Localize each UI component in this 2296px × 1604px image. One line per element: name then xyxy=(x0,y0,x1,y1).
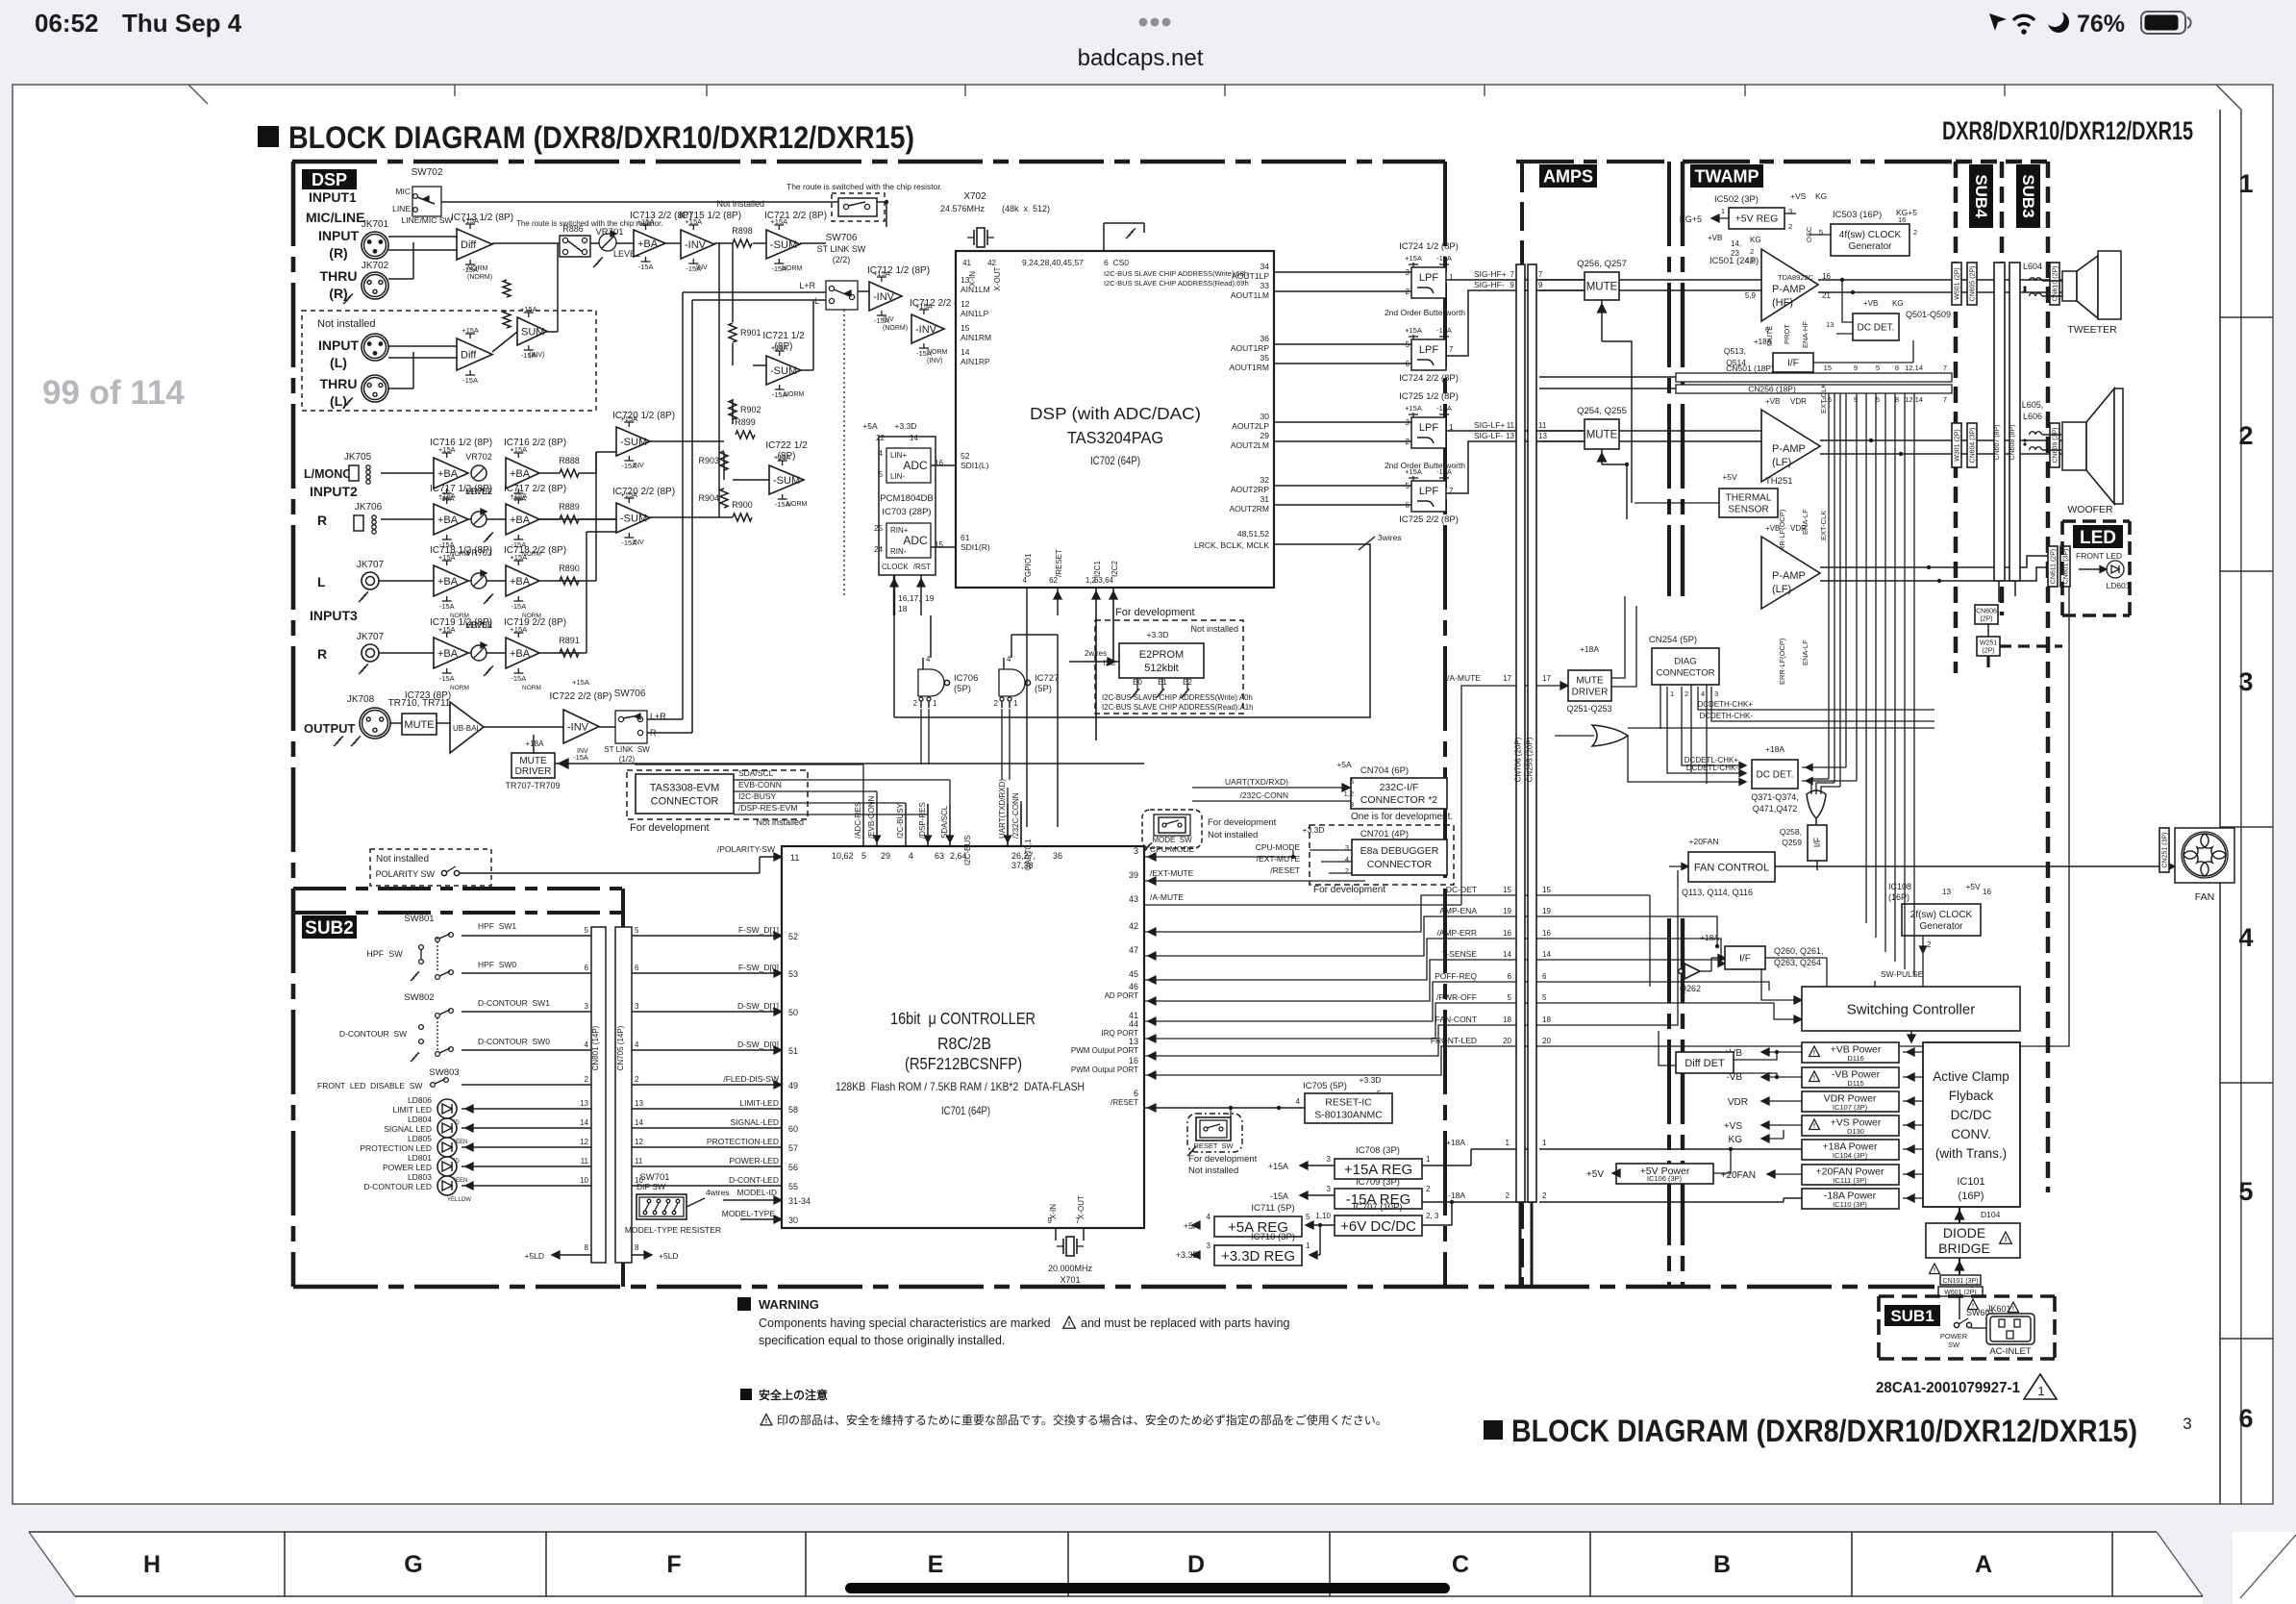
svg-text:The route is switched with the: The route is switched with the chip resi… xyxy=(786,182,942,191)
svg-text:5: 5 xyxy=(1350,777,1354,786)
svg-text:29: 29 xyxy=(1260,431,1270,440)
svg-text:35: 35 xyxy=(1260,353,1270,363)
svg-text:/A-MUTE: /A-MUTE xyxy=(1447,673,1481,683)
svg-text:Diff: Diff xyxy=(461,349,477,361)
svg-text:ENA-HF: ENA-HF xyxy=(1801,321,1809,348)
svg-text:-15A: -15A xyxy=(638,263,654,271)
svg-text:(with Trans.): (with Trans.) xyxy=(1935,1146,2007,1161)
svg-text:IC104 (3P): IC104 (3P) xyxy=(1833,1151,1868,1160)
svg-text:TWAMP: TWAMP xyxy=(1695,166,1759,186)
svg-text:KG: KG xyxy=(1750,236,1761,244)
svg-text:4: 4 xyxy=(585,1040,589,1049)
svg-text:SIG-LF-: SIG-LF- xyxy=(1474,431,1503,440)
svg-text:-18A: -18A xyxy=(1448,1190,1465,1200)
svg-text:Q263, Q264: Q263, Q264 xyxy=(1774,958,1821,967)
svg-text:JK707: JK707 xyxy=(357,560,385,570)
svg-text:+BA: +BA xyxy=(437,648,459,660)
svg-text:FRONT LED DISABLE SW: FRONT LED DISABLE SW xyxy=(317,1081,422,1090)
svg-text:IC709 (3P): IC709 (3P) xyxy=(1356,1177,1400,1188)
svg-text:7: 7 xyxy=(1943,395,1947,404)
svg-text:TDA8922C: TDA8922C xyxy=(1778,273,1814,282)
svg-text:D-CONTOUR LED: D-CONTOUR LED xyxy=(363,1182,432,1191)
svg-text:6: 6 xyxy=(1134,1089,1138,1098)
svg-text:I2C1: I2C1 xyxy=(1093,561,1102,577)
svg-text:58: 58 xyxy=(788,1105,798,1115)
svg-text:WOOFER: WOOFER xyxy=(2067,504,2113,515)
svg-text:11: 11 xyxy=(1507,421,1515,430)
svg-text:!: ! xyxy=(1068,1319,1071,1328)
svg-text:TWEETER: TWEETER xyxy=(2067,324,2117,336)
svg-text:Q513,: Q513, xyxy=(1724,346,1746,356)
svg-text:4f(sw) CLOCK: 4f(sw) CLOCK xyxy=(1839,230,1902,240)
svg-text:(8P): (8P) xyxy=(778,451,796,462)
svg-text:4: 4 xyxy=(1701,689,1705,698)
svg-text:AIN1LP: AIN1LP xyxy=(961,309,989,318)
svg-text:L: L xyxy=(814,296,819,306)
svg-text:8: 8 xyxy=(585,1243,589,1252)
svg-text:IC705 (5P): IC705 (5P) xyxy=(1303,1081,1347,1091)
svg-text:3: 3 xyxy=(1327,1155,1332,1164)
svg-text:(LF): (LF) xyxy=(1772,584,1791,595)
svg-text:1: 1 xyxy=(933,699,937,708)
svg-text:For development: For development xyxy=(630,822,710,834)
svg-text:/A-MUTE: /A-MUTE xyxy=(1150,892,1184,902)
svg-text:IC503 (16P): IC503 (16P) xyxy=(1833,210,1882,220)
svg-text:+VB: +VB xyxy=(1708,234,1722,242)
svg-text:(1/2): (1/2) xyxy=(619,755,636,764)
svg-text:badcaps.net: badcaps.net xyxy=(1078,45,1204,71)
svg-text:R890: R890 xyxy=(559,564,580,573)
svg-text:IC706: IC706 xyxy=(954,673,978,684)
svg-text:+VB: +VB xyxy=(1765,524,1780,533)
svg-text:C: C xyxy=(1452,1551,1469,1578)
svg-text:JK708: JK708 xyxy=(347,694,375,705)
svg-text:/232C-CONN: /232C-CONN xyxy=(1239,790,1288,800)
svg-text:JK601: JK601 xyxy=(1986,1304,2011,1314)
svg-text:NORM: NORM xyxy=(927,349,948,356)
svg-text:3: 3 xyxy=(1327,1185,1332,1193)
svg-text:24: 24 xyxy=(874,545,883,554)
svg-text:-SUM: -SUM xyxy=(770,239,797,251)
svg-text:5: 5 xyxy=(1508,993,1512,1002)
svg-text:BLOCK DIAGRAM (DXR8/DXR10/DXR1: BLOCK DIAGRAM (DXR8/DXR10/DXR12/DXR15) xyxy=(288,120,914,155)
svg-text:CN256 (18P): CN256 (18P) xyxy=(1748,385,1796,394)
svg-text:L/MONO: L/MONO xyxy=(304,467,352,481)
svg-text:LPF: LPF xyxy=(1419,422,1438,434)
svg-text:12: 12 xyxy=(580,1138,588,1146)
svg-text:1: 1 xyxy=(1426,1155,1431,1164)
svg-text:E2PROM: E2PROM xyxy=(1139,649,1184,661)
svg-text:(5P): (5P) xyxy=(954,684,971,694)
svg-text:FRONT LED: FRONT LED xyxy=(2076,551,2122,561)
svg-text:One is for development.: One is for development. xyxy=(1351,812,1453,822)
svg-text:42: 42 xyxy=(987,259,996,267)
svg-text:LRCK, BCLK, MCLK: LRCK, BCLK, MCLK xyxy=(1194,540,1269,550)
svg-text:+BA: +BA xyxy=(510,648,531,660)
svg-text:Q259: Q259 xyxy=(1782,838,1802,847)
svg-text:IC108: IC108 xyxy=(1888,882,1911,891)
svg-text:(2/2): (2/2) xyxy=(833,255,851,264)
svg-text:(8P): (8P) xyxy=(775,341,793,352)
svg-text:3: 3 xyxy=(1207,1241,1211,1250)
svg-text:SW706: SW706 xyxy=(614,689,646,699)
svg-text:+15A: +15A xyxy=(1405,254,1422,263)
svg-text:SUB2: SUB2 xyxy=(305,918,354,939)
svg-text:43: 43 xyxy=(1129,894,1138,904)
svg-text:DCDETH-CHK+: DCDETH-CHK+ xyxy=(1697,700,1753,709)
svg-text:7: 7 xyxy=(1943,363,1947,372)
svg-text:MODEL-TYPE: MODEL-TYPE xyxy=(722,1209,776,1218)
svg-text:SW-PULSE: SW-PULSE xyxy=(1881,969,1924,979)
svg-text:KG: KG xyxy=(1815,191,1827,201)
svg-text:+18A: +18A xyxy=(1765,744,1784,754)
svg-text:12: 12 xyxy=(961,299,970,309)
svg-text:+BA: +BA xyxy=(510,576,531,588)
svg-text:CONNECTOR: CONNECTOR xyxy=(651,795,719,807)
svg-text:X701: X701 xyxy=(1060,1275,1080,1285)
svg-text:19: 19 xyxy=(1542,907,1551,915)
svg-text:R900: R900 xyxy=(732,500,753,510)
svg-text:CN801 (14P): CN801 (14P) xyxy=(591,1025,600,1070)
svg-text:4: 4 xyxy=(879,449,884,458)
svg-text:CN706 (20P): CN706 (20P) xyxy=(1514,737,1523,782)
svg-text:The route is switched with the: The route is switched with the chip resi… xyxy=(516,219,663,228)
svg-text:MUTE: MUTE xyxy=(1586,282,1618,293)
svg-text:(R): (R) xyxy=(329,245,347,261)
svg-text:D-CONTOUR SW: D-CONTOUR SW xyxy=(339,1029,407,1039)
svg-text:+3.3D: +3.3D xyxy=(1147,630,1169,639)
svg-text:+VS: +VS xyxy=(1790,191,1807,201)
svg-text:CN705 (14P): CN705 (14P) xyxy=(616,1025,625,1070)
svg-text:LD804: LD804 xyxy=(408,1115,432,1124)
svg-text:+BA: +BA xyxy=(437,576,459,588)
svg-text:FAN CONTROL: FAN CONTROL xyxy=(1694,862,1769,873)
svg-text:+3.3D REG: +3.3D REG xyxy=(1221,1248,1295,1265)
svg-text:12: 12 xyxy=(635,1138,643,1146)
svg-text:(L): (L) xyxy=(330,355,347,370)
svg-text:AOUT2LP: AOUT2LP xyxy=(1232,421,1269,431)
svg-text:SUM: SUM xyxy=(521,326,544,338)
svg-text:P-AMP: P-AMP xyxy=(1772,570,1806,582)
svg-text:Not installed: Not installed xyxy=(756,817,804,827)
svg-text:24.576MHz: 24.576MHz xyxy=(940,204,986,213)
svg-text:52: 52 xyxy=(961,451,970,461)
svg-text:SW803: SW803 xyxy=(429,1067,459,1078)
svg-text:RESET-IC: RESET-IC xyxy=(1325,1097,1372,1109)
svg-text:20: 20 xyxy=(1503,1037,1511,1045)
svg-text:(INV): (INV) xyxy=(927,358,942,364)
svg-text:SW702: SW702 xyxy=(412,167,443,178)
svg-text:512kbit: 512kbit xyxy=(1144,663,1178,674)
svg-text:6: 6 xyxy=(635,964,639,972)
svg-text:2wires: 2wires xyxy=(1085,649,1107,658)
svg-text:(48k x 512): (48k x 512) xyxy=(1002,204,1050,213)
svg-text:14: 14 xyxy=(1503,950,1511,959)
svg-text:SUB3: SUB3 xyxy=(2019,174,2037,217)
svg-text:IC703 (28P): IC703 (28P) xyxy=(882,507,931,517)
svg-text:14: 14 xyxy=(635,1118,643,1127)
svg-text:INPUT1: INPUT1 xyxy=(309,189,357,205)
svg-text:/FLED-DIS-SW: /FLED-DIS-SW xyxy=(723,1074,779,1084)
svg-text:1: 1 xyxy=(1670,689,1674,698)
svg-text:CN704 (6P): CN704 (6P) xyxy=(1360,765,1409,776)
svg-text:KG+5: KG+5 xyxy=(1680,214,1702,224)
svg-text:-SUM: -SUM xyxy=(770,365,797,377)
svg-text:6: 6 xyxy=(2238,1404,2253,1433)
svg-text:DIAG: DIAG xyxy=(1674,656,1696,666)
svg-text:I/F: I/F xyxy=(1739,954,1751,965)
svg-text:POWER LED: POWER LED xyxy=(383,1163,432,1172)
svg-text:23: 23 xyxy=(1731,249,1739,258)
svg-text:3: 3 xyxy=(1350,800,1354,809)
svg-text:56: 56 xyxy=(788,1163,798,1172)
svg-text:SUB4: SUB4 xyxy=(1972,174,1990,218)
svg-text:THRU: THRU xyxy=(320,376,358,391)
svg-text:D-CONTOUR SW0: D-CONTOUR SW0 xyxy=(478,1037,550,1046)
svg-text:Diff DET: Diff DET xyxy=(1685,1058,1725,1069)
svg-text:+3.3D: +3.3D xyxy=(1303,825,1325,835)
svg-text:-15A: -15A xyxy=(573,753,588,762)
svg-text:Components having special char: Components having special characteristic… xyxy=(759,1316,1051,1330)
svg-text:Q258,: Q258, xyxy=(1780,827,1802,837)
svg-text:For development: For development xyxy=(1115,607,1195,618)
svg-text:PROTECTION-LED: PROTECTION-LED xyxy=(707,1137,779,1146)
svg-text:LD805: LD805 xyxy=(408,1134,432,1143)
svg-text:!: ! xyxy=(2012,1306,2014,1313)
svg-text:11: 11 xyxy=(635,1157,643,1165)
svg-text:13: 13 xyxy=(1942,888,1951,896)
svg-text:+5V REG: +5V REG xyxy=(1735,213,1779,225)
svg-text:+3.3D: +3.3D xyxy=(895,421,917,431)
svg-text:MUTE: MUTE xyxy=(1576,676,1604,687)
svg-text:Generator: Generator xyxy=(1848,241,1892,252)
svg-text:D-SW_D[1]: D-SW_D[1] xyxy=(737,1001,779,1011)
svg-text:Flyback: Flyback xyxy=(1949,1089,1994,1103)
svg-text:11: 11 xyxy=(581,1157,589,1165)
svg-text:CN607 (8P): CN607 (8P) xyxy=(1994,425,2001,461)
svg-text:I2C-BUSY: I2C-BUSY xyxy=(896,802,905,839)
svg-text:R8C/2B: R8C/2B xyxy=(937,1034,991,1053)
svg-text:CN101 (3P): CN101 (3P) xyxy=(1943,1278,1979,1285)
svg-text:18: 18 xyxy=(1542,1015,1551,1024)
svg-text:TAS3204PAG: TAS3204PAG xyxy=(1067,428,1163,447)
svg-text:IC721 2/2 (8P): IC721 2/2 (8P) xyxy=(764,211,827,221)
svg-text:DCDETL-CHK-: DCDETL-CHK- xyxy=(1686,764,1739,772)
svg-text:BLOCK DIAGRAM (DXR8/DXR10/DXR1: BLOCK DIAGRAM (DXR8/DXR10/DXR12/DXR15) xyxy=(1511,1414,2137,1448)
svg-text:16: 16 xyxy=(1129,1056,1138,1065)
svg-text:Not installed: Not installed xyxy=(376,854,429,865)
svg-text:Q251-Q253: Q251-Q253 xyxy=(1566,704,1611,714)
svg-text:-INV: -INV xyxy=(873,291,895,303)
svg-text:R: R xyxy=(650,728,657,738)
svg-text:印の部品は、安全を維持するために重要な部品です。交換する場合: 印の部品は、安全を維持するために重要な部品です。交換する場合は、安全のため必ず指… xyxy=(777,1413,1387,1427)
svg-text:IC716 1/2 (8P): IC716 1/2 (8P) xyxy=(430,438,492,448)
svg-text:I/F: I/F xyxy=(1787,359,1799,369)
svg-text:FAN-CONT: FAN-CONT xyxy=(1435,1015,1477,1024)
svg-text:20: 20 xyxy=(1542,1037,1551,1045)
svg-text:TR707-TR709: TR707-TR709 xyxy=(505,781,560,790)
svg-text:X702: X702 xyxy=(963,191,986,202)
svg-text:CN605 (2P): CN605 (2P) xyxy=(1970,266,1977,302)
svg-text:5: 5 xyxy=(861,851,866,861)
svg-text:PROT: PROT xyxy=(1783,324,1791,344)
svg-text:DC DET.: DC DET. xyxy=(1858,323,1895,334)
svg-text:61: 61 xyxy=(961,533,970,542)
svg-text:MODEL-ID: MODEL-ID xyxy=(736,1188,777,1197)
svg-text:R904: R904 xyxy=(698,493,719,503)
svg-text:CN604 (3P): CN604 (3P) xyxy=(1970,428,1977,464)
svg-text:CN254 (5P): CN254 (5P) xyxy=(1649,635,1697,645)
svg-text:R: R xyxy=(317,646,327,662)
svg-text:SIGNAL-LED: SIGNAL-LED xyxy=(730,1117,779,1127)
svg-text:IC718 2/2 (8P): IC718 2/2 (8P) xyxy=(504,545,566,556)
svg-text:ADC: ADC xyxy=(903,534,928,547)
svg-text:SIG-HF+: SIG-HF+ xyxy=(1474,269,1507,279)
svg-text:IC712 1/2 (8P): IC712 1/2 (8P) xyxy=(867,265,930,276)
svg-text:Not installed: Not installed xyxy=(716,199,764,209)
svg-text:For development: For development xyxy=(1313,885,1385,895)
svg-text:EXT-CLK: EXT-CLK xyxy=(1819,384,1828,414)
svg-text:/AMP-ERR: /AMP-ERR xyxy=(1436,928,1477,938)
svg-text:1: 1 xyxy=(1306,1241,1310,1250)
svg-text:CN609 (3P): CN609 (3P) xyxy=(2053,428,2059,464)
svg-text:SUB1: SUB1 xyxy=(1890,1307,1934,1325)
svg-text:6: 6 xyxy=(1508,972,1512,981)
svg-text:7: 7 xyxy=(1510,270,1515,279)
svg-text:-15A: -15A xyxy=(462,376,478,385)
svg-text:52: 52 xyxy=(788,932,798,941)
svg-text:3: 3 xyxy=(585,1002,589,1011)
svg-text:F-SW_D[0]: F-SW_D[0] xyxy=(738,963,779,972)
svg-text:4: 4 xyxy=(635,1040,639,1049)
svg-text:PWM Output PORT: PWM Output PORT xyxy=(1071,1046,1138,1055)
svg-text:IC715 1/2 (8P): IC715 1/2 (8P) xyxy=(679,211,741,221)
svg-text:5: 5 xyxy=(1306,1213,1310,1221)
svg-text:/ADC-RES: /ADC-RES xyxy=(854,802,862,839)
svg-text:AIN1RP: AIN1RP xyxy=(961,357,990,366)
svg-text:LD806: LD806 xyxy=(408,1095,432,1105)
svg-text:AMP-ENA: AMP-ENA xyxy=(1439,906,1477,915)
svg-text:5: 5 xyxy=(1876,363,1880,372)
svg-text:2: 2 xyxy=(1750,247,1754,256)
svg-text:HPF SW1: HPF SW1 xyxy=(478,921,516,931)
svg-text:LIN-: LIN- xyxy=(890,472,905,481)
svg-text:22: 22 xyxy=(876,434,885,442)
svg-text:CONNECTOR: CONNECTOR xyxy=(1367,859,1433,870)
svg-text:Generator: Generator xyxy=(1919,921,1963,932)
svg-text:!: ! xyxy=(765,1417,767,1425)
svg-text:CN611 (2P): CN611 (2P) xyxy=(2051,549,2058,584)
svg-text:4: 4 xyxy=(909,851,913,861)
svg-text:16bit μ CONTROLLER: 16bit μ CONTROLLER xyxy=(890,1009,1036,1028)
svg-text:IC106 (3P): IC106 (3P) xyxy=(1647,1174,1683,1183)
svg-text:PCM1804DB: PCM1804DB xyxy=(880,493,933,504)
svg-text:DSP (with ADC/DAC): DSP (with ADC/DAC) xyxy=(1030,404,1201,423)
svg-text:33: 33 xyxy=(1260,281,1270,290)
svg-text:30: 30 xyxy=(788,1216,798,1225)
svg-text:DCDETH-CHK-: DCDETH-CHK- xyxy=(1699,712,1753,720)
svg-text:(16P): (16P) xyxy=(1959,1190,1984,1202)
svg-text:LIMIT LED: LIMIT LED xyxy=(393,1105,432,1115)
svg-text:44: 44 xyxy=(1129,1019,1138,1029)
svg-text:CN251 (3P): CN251 (3P) xyxy=(2162,833,2169,868)
svg-text:I2C2: I2C2 xyxy=(1111,561,1119,577)
svg-text:IC724 1/2 (8P): IC724 1/2 (8P) xyxy=(1399,241,1459,252)
svg-text:4,8: 4,8 xyxy=(1745,257,1757,265)
svg-text:1: 1 xyxy=(1506,1139,1510,1147)
svg-text:UART(TXD/RXD): UART(TXD/RXD) xyxy=(1225,777,1288,787)
svg-text:(R): (R) xyxy=(329,286,347,301)
svg-text:+3.3D: +3.3D xyxy=(1360,1075,1382,1085)
svg-text:ERR-LF(OCP): ERR-LF(OCP) xyxy=(1778,638,1786,685)
svg-text:SW: SW xyxy=(1948,1341,1960,1349)
svg-text:12,14: 12,14 xyxy=(1905,363,1923,372)
svg-text:RIN-: RIN- xyxy=(890,547,907,556)
svg-text:TAS3308-EVM: TAS3308-EVM xyxy=(650,782,720,793)
svg-text:1: 1 xyxy=(1721,207,1725,215)
svg-text:-15A: -15A xyxy=(439,494,455,503)
svg-text:14: 14 xyxy=(580,1118,588,1127)
svg-text:06:52: 06:52 xyxy=(35,9,99,38)
svg-text:EXT-CLK: EXT-CLK xyxy=(1819,511,1828,540)
svg-text:/RST: /RST xyxy=(913,563,931,571)
svg-text:specification equal to those o: specification equal to those originally … xyxy=(759,1334,1005,1347)
svg-text:MUTE: MUTE xyxy=(519,756,547,766)
svg-text:-SUM: -SUM xyxy=(620,437,647,448)
svg-text:18: 18 xyxy=(898,604,908,614)
svg-text:8: 8 xyxy=(1895,363,1899,372)
svg-text:JK705: JK705 xyxy=(344,452,372,463)
svg-text:(NORM): (NORM) xyxy=(467,274,492,281)
svg-text:Q262: Q262 xyxy=(1680,984,1701,993)
svg-text:18: 18 xyxy=(1503,1015,1511,1024)
svg-text:AOUT1LM: AOUT1LM xyxy=(1231,290,1269,300)
svg-text:IC111 (3P): IC111 (3P) xyxy=(1833,1176,1867,1185)
svg-text:IC725 1/2 (8P): IC725 1/2 (8P) xyxy=(1399,391,1459,402)
svg-text:2: 2 xyxy=(1685,689,1688,698)
svg-text:/RESET: /RESET xyxy=(1270,865,1300,875)
svg-text:128KB Flash ROM / 7.5KB RAM /: 128KB Flash ROM / 7.5KB RAM / 1KB*2 DATA… xyxy=(836,1080,1085,1093)
svg-text:INPUT: INPUT xyxy=(318,338,359,353)
svg-text:SIGNAL LED: SIGNAL LED xyxy=(384,1124,432,1134)
svg-text:!: ! xyxy=(1813,1050,1815,1057)
svg-text:1,10: 1,10 xyxy=(1315,1212,1331,1220)
svg-text:LIMIT-LED: LIMIT-LED xyxy=(739,1098,779,1108)
svg-text:R888: R888 xyxy=(559,456,580,465)
svg-text:2: 2 xyxy=(1927,940,1932,949)
svg-text:57: 57 xyxy=(788,1143,798,1153)
svg-text:14: 14 xyxy=(961,347,970,357)
svg-text:+20FAN: +20FAN xyxy=(1689,837,1719,846)
svg-text:INV: INV xyxy=(633,463,644,469)
svg-text:INV: INV xyxy=(696,264,708,271)
svg-text:NORM: NORM xyxy=(450,685,469,691)
svg-text:Q256, Q257: Q256, Q257 xyxy=(1577,259,1627,269)
svg-text:2nd Order Butterworth: 2nd Order Butterworth xyxy=(1385,308,1465,317)
svg-text:+BA: +BA xyxy=(637,238,659,250)
svg-text:6: 6 xyxy=(1542,972,1547,981)
svg-text:16: 16 xyxy=(1898,215,1906,224)
svg-text:DRIVER: DRIVER xyxy=(1572,688,1609,698)
svg-text:+BA: +BA xyxy=(510,514,531,526)
svg-text:ENA-LF: ENA-LF xyxy=(1801,639,1809,665)
svg-text:VR702: VR702 xyxy=(465,452,492,462)
svg-text:AOUT1LP: AOUT1LP xyxy=(1232,271,1269,281)
svg-text:Q371-Q374,: Q371-Q374, xyxy=(1751,792,1799,802)
svg-text:D104: D104 xyxy=(1981,1210,2001,1219)
svg-text:+18A: +18A xyxy=(1754,338,1773,346)
svg-text:Q260, Q261,: Q260, Q261, xyxy=(1774,946,1824,956)
